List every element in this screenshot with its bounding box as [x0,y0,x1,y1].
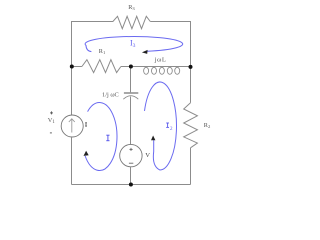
resistor R3 [109,16,150,28]
junction dot center [129,65,133,69]
center branch upper wire [130,67,132,93]
I label (blue) [106,135,109,141]
mesh loop I3 arrowhead [142,50,148,54]
wire middle-center [121,66,191,68]
junction dot left [70,65,74,69]
capacitor C bottom curved plate [123,96,138,100]
source V1 circle [61,115,83,137]
mesh loop I2 arc [144,82,176,170]
resistor R2 [184,103,198,148]
left wire lower [71,137,73,185]
svg-text:R2: R2 [204,122,211,129]
junction dot right [189,65,193,69]
source V circle [120,144,142,166]
inductor jwL coils [144,67,180,74]
center branch middle wire [130,97,132,145]
label + (V source) [130,148,133,151]
svg-text:I3: I3 [130,38,136,48]
label I (source current) [85,123,87,126]
left wire upper (source top lead) [71,67,73,116]
svg-text:R3: R3 [128,4,135,11]
svg-text:R1: R1 [99,48,106,55]
capacitor C top plate [124,92,138,94]
bottom wire [72,184,191,186]
source V1 arrow [71,119,73,133]
right wire lower [190,148,192,185]
I2 label [166,123,169,127]
mesh loop I arrowhead [84,151,89,156]
label - (v1) [50,132,52,134]
svg-text:V1: V1 [48,117,56,125]
mesh loop I (left) arc [85,103,117,171]
right wire upper lead to R2 [190,67,192,103]
svg-text:1/j ωC: 1/j ωC [102,91,119,98]
resistor R1 [82,60,121,73]
svg-text:jωL: jωL [154,56,167,63]
junction dot bottom [129,183,133,187]
center branch lower wire [130,167,132,185]
svg-text:2: 2 [170,127,173,132]
wire middle-left stub [72,66,82,68]
wire top-right segment [150,22,190,67]
svg-text:V: V [145,152,150,159]
label - (V source) [129,162,133,164]
label + (v1) [50,111,53,114]
wire top-left segment [72,22,110,67]
mesh loop I2 arrowhead [151,136,155,141]
mesh loop I3 arc [85,37,183,52]
